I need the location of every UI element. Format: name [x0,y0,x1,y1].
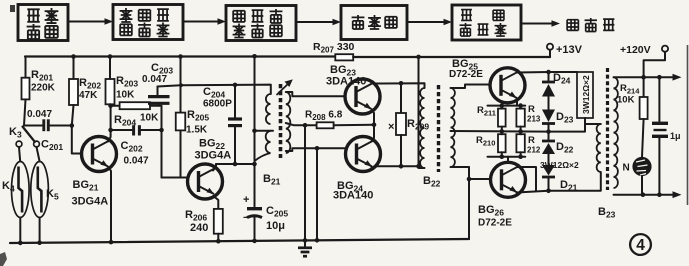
resistor R214 [643,77,645,97]
junction dot R209 top [399,81,404,86]
junction dot neon bottom [641,192,646,197]
transistor BG25 [490,68,525,103]
transformer B23 core [606,68,609,190]
wire BG23 emitter to junction [372,110,374,125]
svg-text:D72-2E: D72-2E [449,69,483,80]
svg-text:0.047: 0.047 [27,109,52,120]
wire C201 link [24,125,42,127]
wire D21 to bottom node [548,178,550,191]
wire block4-block5 with arrow [407,21,445,23]
wire B22 sec center tap to diode node [451,130,549,133]
figure number 4 circled [630,234,651,255]
svg-text:−: − [243,212,249,224]
capacitor C205 (electrolytic) [247,207,262,210]
junction dot cap chain top [657,75,662,80]
block box: pulse modulation oscillator [226,6,296,41]
ground bottom rail [10,239,469,243]
wire +13V top rail (left of R207) [25,55,335,57]
svg-text:+13V: +13V [556,44,583,56]
resistor R205 [180,57,182,113]
transformer B23 secondary winding [614,77,618,188]
junction dot K5 bottom [37,240,42,245]
wire box bottom to B23 primary [585,118,601,124]
block box: driver stage (jili ji) [341,6,407,40]
wire ladder bottom [488,156,526,158]
wire B21 secondary bottom to BG24 base [286,148,345,151]
resistor R208 [305,124,317,126]
junction dot K4 bottom [18,241,23,246]
diode D24 [542,81,555,84]
terminal +13V [547,44,553,50]
wire B23 primary bottom to diode node [549,172,601,191]
transistor BG21 [82,137,117,172]
svg-text:3W12Ω×2: 3W12Ω×2 [540,160,579,170]
svg-text:212: 212 [527,146,541,155]
svg-text:3W12Ω×2: 3W12Ω×2 [581,75,591,114]
svg-text:1.5K: 1.5K [186,125,208,136]
wire BG22 emitter to R206 [214,196,219,209]
wire BG24 emitter to B22 bottom [372,166,419,167]
wire C201 to base node [50,125,72,127]
junction dot B21 left rail [252,54,257,59]
resistor R201 [25,57,27,78]
wire mid-D22 segment [548,132,550,140]
transformer B21 primary winding lower [266,131,271,153]
wire block3-block4 with arrow [296,21,334,23]
svg-text:0.047: 0.047 [124,156,149,167]
junction dot diode mid node [546,129,551,134]
arrow variable-core B21 [277,82,290,95]
transformer B22 core [437,85,440,172]
wire block1-block2 with arrow [68,21,106,23]
wire BG22 collector up to node [213,164,216,171]
resistor R203 [109,57,111,80]
junction dot R213 mid [518,129,523,134]
resistor box 3W120x2 [577,72,593,118]
junction dot C202 left [108,128,113,133]
wire +120V feed [644,52,665,77]
resistor R212 [516,134,524,152]
junction dot R213 top [518,103,523,108]
svg-text:213: 213 [527,115,541,124]
wire B21 secondary center tap to R208 [286,123,305,125]
junction dot diode bottom node [546,189,551,194]
block box: power output stage [452,5,521,40]
scan artifact top-left [10,5,15,12]
wire ladder top [488,105,526,107]
wire center tap ground branch [304,125,306,240]
wire primary mid tap [255,130,274,132]
neon lamp N [632,157,651,176]
junction dot B22 feed rail [416,55,421,60]
svg-text:10K: 10K [116,90,135,101]
svg-text:R207 330: R207 330 [313,41,355,55]
diode D23 [542,110,555,123]
svg-text:N: N [623,163,630,174]
block box: pulse width control [113,5,183,40]
wire B21 secondary top to BG23 base [286,92,345,96]
wire bias line y85 (C203/C204/B21 top) [158,85,271,94]
svg-text:D72-2E: D72-2E [478,218,512,229]
junction dot R206 rail [216,239,221,244]
svg-text:4: 4 [636,237,645,254]
label transducer (huannengqi) [567,20,578,31]
junction dot R209 bottom [399,164,404,169]
wire BG21 emitter down to rail [109,167,112,242]
terminal +120V [662,46,668,52]
junction dot BG26 base branch [467,177,472,182]
transformer B21 core [279,84,283,158]
junction dot C202 right [159,128,164,133]
svg-text:240: 240 [190,222,208,234]
transistor BG24 [346,137,381,172]
reed switch K4 [19,147,20,162]
junction dot cap chain bottom [657,192,662,197]
transformer B23 primary winding [597,124,601,172]
svg-text:6800P: 6800P [203,99,232,110]
wire B22 feed vertical [419,57,425,168]
transformer B22 secondary winding [451,88,455,167]
arrow output bottom [673,191,682,198]
wire sec bottom to ground rail [468,167,470,239]
wire BG26 emitter out [517,191,549,193]
wire block2-block3 with arrow [183,21,219,23]
wire BG22 base link [162,177,188,179]
svg-text:1μ: 1μ [670,131,681,141]
junction dot ladder bottom R [518,154,523,159]
svg-text:10K: 10K [140,113,159,124]
wire D22-D21 segment [548,154,550,165]
junction dot R203/R204/collector node [108,103,113,108]
junction dot diode chain top [546,70,551,75]
resistor R209 [400,83,402,113]
junction dot emitter/R208/BG24 [372,123,377,128]
resistor R213 [516,109,524,127]
svg-text:3DG4A: 3DG4A [72,196,109,208]
transistor BG23 [345,79,380,114]
resistor R206 [214,209,223,234]
wire D23 to mid node [548,124,550,132]
arrow output top [673,74,682,81]
wire BG25 emitter to ladder [516,98,519,106]
capacitor C201 [42,119,45,131]
scan artifact bottom-left [0,252,7,266]
block box: trigger switch (chudong kaiguan) [18,5,68,41]
wire +13V top rail (right of R207) [353,56,550,58]
wire C203/C202 node down to BG22 base [161,106,163,178]
wire BG26 base link [469,178,490,180]
junction dot center tap ground branch [303,123,308,128]
wire D24-D23 segment [548,97,550,110]
junction dot C205 rail [252,239,257,244]
resistor R207 [335,54,353,60]
junction dot R202 top [71,54,76,59]
svg-text:×: × [388,121,394,133]
wire block5-transducer with arrow [521,23,552,25]
transformer B21 primary winding upper [266,94,271,124]
wire mid node to resistor box [549,118,586,132]
junction dot collector wire at B21 vertical [252,162,257,167]
junction dot base node [70,123,75,128]
wire B21 left vertical (rail to C205) [254,56,256,206]
svg-text:10μ: 10μ [266,220,285,232]
wire primary bottom curl [255,153,271,161]
wire base node down to BG21 base [72,126,82,154]
junction dot primary mid tap [252,128,257,133]
svg-text:0.047: 0.047 [142,74,167,85]
wire B22 sec bottom [451,166,470,168]
junction dot branch rail [315,238,320,243]
reed switch K5 [37,147,40,162]
junction dot ground rail [303,238,308,243]
junction dot C204 bottom [233,162,238,167]
transformer B21 secondary winding [286,92,291,153]
scan edge line right [687,45,689,205]
capacitor C204 [234,85,236,118]
switch K3 [16,141,22,147]
resistor R210 [498,134,506,152]
transistor BG22 [188,164,223,199]
capacitor C202 [111,129,132,131]
wire BG26 collector to diode bottom node [518,167,537,191]
resistor R204 [111,105,120,107]
junction dot R203 top [108,54,113,59]
svg-text:3DG4A: 3DG4A [195,150,232,162]
junction dot C204 top [233,83,238,88]
diode D22 [542,140,555,143]
junction dot R214 chain top [641,75,646,80]
transformer B22 primary winding [420,88,424,168]
wire collector node horizontal [216,163,255,165]
svg-text:3DA140: 3DA140 [326,76,366,88]
wire B22 sec top to BG25 base [451,85,491,89]
wire output bottom [614,194,674,196]
capacitor C203 [148,95,170,98]
svg-text:220K: 220K [31,83,56,94]
capacitor output filter [658,77,660,121]
junction dot R211 mid [500,129,505,134]
junction dot R211 top [500,103,505,108]
junction dot base-line branch [315,146,320,151]
svg-text:47K: 47K [79,90,98,101]
resistor R202 [73,57,75,80]
junction dot C203/R205 rail [178,54,183,59]
svg-text:R: R [528,135,535,146]
junction dot bias/R205 [179,83,183,87]
svg-text:R: R [528,104,535,115]
junction dot B22 feed bottom [416,164,421,169]
wire BG26 emitter stub to ladder [507,157,509,163]
wire chain top segment [548,72,550,81]
wire BG24 collector up to junction [373,125,375,141]
ground symbol [304,240,306,247]
wire BG23 collector to B22 top [372,83,425,88]
wire BG21 collector to R203/R204 node [108,106,111,142]
resistor R211 [498,109,506,127]
junction dot BG21 emitter rail [109,240,114,245]
svg-text:+120V: +120V [620,44,651,56]
svg-text:+: + [243,194,249,206]
junction dot ladder bottom L [500,154,505,159]
wire branch down to rail [316,148,318,240]
svg-text:3DA140: 3DA140 [333,190,373,202]
transistor BG26 [491,162,526,197]
wire BG25 collector to diode chain [517,71,577,74]
svg-text:10K: 10K [617,95,635,106]
wire output top [614,76,674,78]
diode D21 [542,165,555,176]
